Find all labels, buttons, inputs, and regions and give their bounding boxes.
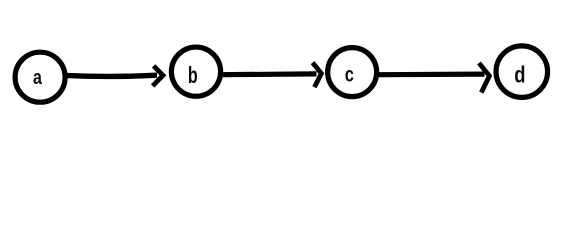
wire a->b	[65, 75, 158, 76]
arrowhead c->d	[479, 63, 489, 93]
wire b->c	[220, 71, 317, 77]
arrowhead b->c	[313, 63, 322, 88]
node b	[171, 47, 220, 96]
svg-text:a: a	[33, 65, 43, 88]
label b	[188, 63, 198, 88]
label d	[514, 63, 525, 88]
svg-text:d: d	[514, 63, 525, 88]
svg-text:c: c	[345, 63, 354, 86]
node a	[15, 52, 65, 102]
label c	[345, 63, 354, 86]
node d	[496, 46, 548, 98]
node c	[328, 48, 377, 97]
arrowhead a->b	[153, 66, 163, 86]
label a	[33, 65, 43, 88]
wire c->d	[376, 71, 485, 77]
svg-text:b: b	[188, 63, 198, 88]
